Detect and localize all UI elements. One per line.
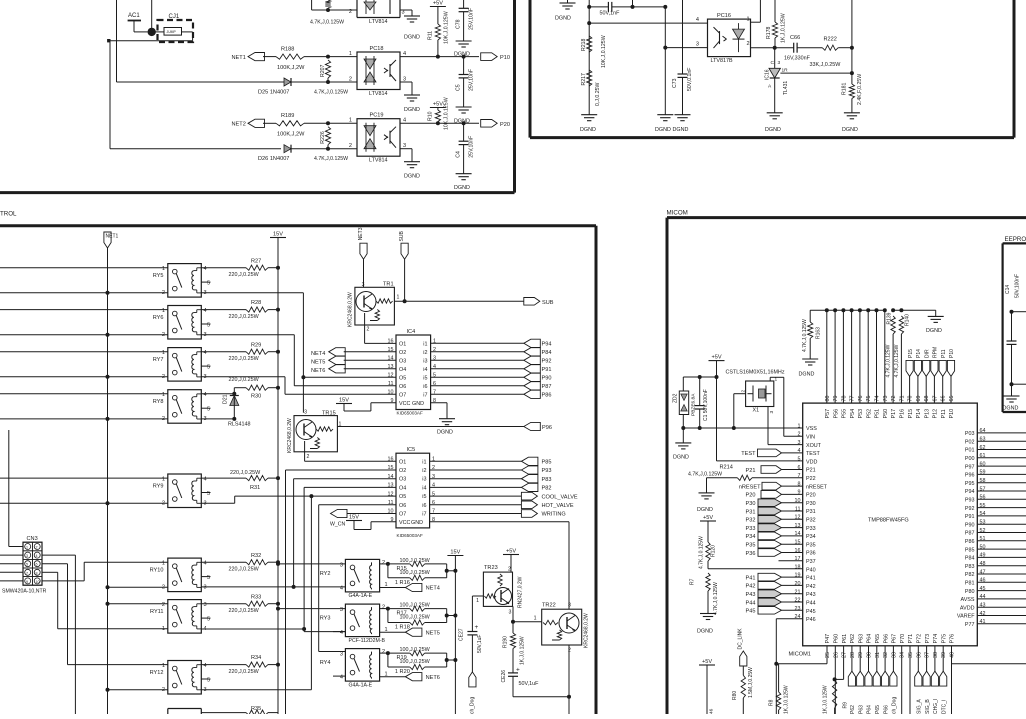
svg-text:DGND: DGND [437,429,453,435]
svg-text:28: 28 [850,652,856,658]
power +5V lower left [699,664,715,666]
svg-text:DGND: DGND [404,174,420,180]
output flag HOT_VALVE [521,501,537,509]
svg-text:P35: P35 [806,542,816,548]
svg-text:O6: O6 [399,384,406,390]
svg-text:R140: R140 [905,314,911,326]
svg-text:68: 68 [924,396,930,402]
wire VDD to pin5 [717,460,803,462]
svg-text:+5V: +5V [506,549,516,555]
wire RY4 pin4 stub [333,675,345,677]
resistor R190 1K [512,622,514,633]
svg-text:1: 1 [162,266,165,272]
svg-text:P46: P46 [806,617,816,623]
svg-text:DGND: DGND [765,127,781,133]
svg-text:P41: P41 [806,576,816,582]
border: top-right block outline [529,0,532,138]
svg-text:P85: P85 [965,547,975,553]
svg-text:P91: P91 [542,367,552,373]
ground DGND under PC19 [404,161,420,163]
wire P46-P47 node [776,663,827,665]
svg-text:P91: P91 [965,514,975,520]
power 15V rail right [447,555,463,557]
IC5 output flags P85 P93 P83 P82 [521,457,538,465]
svg-text:NET2: NET2 [232,122,246,128]
svg-text:1: 1 [747,17,750,23]
svg-text:KRC2468,0.2W: KRC2468,0.2W [287,418,293,453]
svg-text:G4A-1A-E: G4A-1A-E [349,593,373,599]
wire PC18 pin4 output [400,56,479,58]
svg-text:TR22: TR22 [542,603,556,609]
wire TR1 pin1 to SUB [394,300,523,302]
svg-text:12: 12 [388,373,394,379]
svg-text:RY7: RY7 [153,357,164,363]
svg-text:P33: P33 [806,526,816,532]
svg-text:+5V: +5V [711,355,721,361]
svg-text:DIR: DIR [924,349,930,358]
zener diode ZD2 [682,377,684,391]
wire VSS net to pin1 [683,427,802,429]
resistor R29 220 [201,351,246,353]
wire PC18 pin3 to ground [400,81,412,83]
svg-text:R31: R31 [250,485,260,491]
svg-text:R214: R214 [720,465,733,471]
svg-text:34: 34 [900,652,906,658]
svg-text:RY5: RY5 [153,273,164,279]
svg-text:3: 3 [769,411,775,414]
svg-text:R30: R30 [251,394,261,400]
svg-text:R7: R7 [690,578,696,585]
svg-text:i6: i6 [422,503,426,509]
wire node A vertical [588,0,590,115]
svg-text:1: 1 [162,392,165,398]
svg-text:C66: C66 [790,35,800,41]
svg-text:79: 79 [833,396,839,402]
svg-text:RY8: RY8 [153,399,164,405]
resistor R19 100 [380,652,388,654]
svg-text:2: 2 [740,390,746,393]
svg-text:P42: P42 [746,584,756,590]
svg-text:3: 3 [204,585,207,591]
svg-text:74: 74 [875,396,881,402]
svg-text:ch_Dog: ch_Dog [892,697,898,714]
svg-text:C1 50V,100nF: C1 50V,100nF [703,389,709,421]
svg-text:P96: P96 [965,473,975,479]
relay RY4 G4A-1A-E [345,649,379,682]
svg-text:P63: P63 [858,705,864,714]
svg-text:GND: GND [412,401,424,407]
svg-text:AVDD: AVDD [960,605,975,611]
svg-text:15V: 15V [349,515,359,521]
svg-text:AVSS: AVSS [961,597,975,603]
svg-text:nRESET: nRESET [806,484,828,490]
wire RY11 pin2 to bus [108,603,168,605]
svg-text:31: 31 [875,652,881,658]
svg-text:4.7K,J,0.125W: 4.7K,J,0.125W [310,19,344,25]
svg-text:PCF-112D2M-B: PCF-112D2M-B [349,638,386,644]
svg-text:O4: O4 [399,367,406,373]
svg-text:P12: P12 [933,409,939,419]
wire NET1 branch vertical [116,0,118,82]
svg-text:P86: P86 [965,539,975,545]
svg-text:LTV817B: LTV817B [711,58,733,64]
svg-text:+5V: +5V [433,102,443,108]
svg-text:0,J,0.25W: 0,J,0.25W [595,83,601,106]
svg-text:R218: R218 [581,38,587,51]
svg-text:R9: R9 [843,702,849,709]
power 15V for IC4 [336,403,352,405]
resistor R33 220 [201,603,246,605]
svg-text:1K,J,0.125W: 1K,J,0.125W [823,685,829,714]
svg-text:i4: i4 [422,485,426,491]
svg-text:4.7K,J,0.125W: 4.7K,J,0.125W [713,582,719,615]
svg-text:VDD: VDD [806,459,817,465]
svg-text:i1: i1 [423,341,427,347]
svg-text:36: 36 [916,652,922,658]
svg-text:5: 5 [26,563,28,567]
wire R222 node vertical [851,0,853,48]
svg-text:1: 1 [162,561,165,567]
svg-text:P44: P44 [746,600,756,606]
svg-text:O7: O7 [399,392,406,398]
resistor R15 100 [380,563,388,565]
svg-text:+5V: +5V [703,515,713,521]
svg-text:4.7K,J,0.125W: 4.7K,J,0.125W [314,90,348,96]
svg-text:R207: R207 [320,64,326,77]
svg-text:IC16: IC16 [765,69,771,80]
svg-text:NET1: NET1 [232,55,246,61]
svg-text:P90: P90 [965,522,975,528]
wire TR15 pin2 to IC5 O1 [304,452,306,462]
power +5V for R120 [700,520,716,522]
wire RY3 pin4 stub [333,631,345,633]
svg-text:20: 20 [795,581,801,587]
svg-text:38: 38 [933,652,939,658]
svg-text:nRESET: nRESET [739,484,761,490]
pin5 stub RY12 [201,678,210,680]
svg-text:5: 5 [207,281,210,287]
svg-text:5: 5 [207,491,210,497]
svg-text:P53: P53 [858,409,864,419]
optocoupler PC17 (partial top row) [356,0,358,18]
svg-text:P11: P11 [941,409,947,418]
svg-text:13: 13 [388,483,394,489]
resistor R206 (partial) [311,0,313,10]
wire RY7 pin3 to IC4 O7 [201,376,285,378]
svg-text:P14: P14 [916,409,922,419]
pin5 stub RY11 [201,617,210,619]
svg-text:DGND: DGND [655,127,671,133]
svg-text:O4: O4 [399,485,406,491]
svg-text:P66: P66 [883,634,889,644]
svg-text:RY11: RY11 [150,609,163,615]
partial relay RY13 at bottom [167,709,169,715]
svg-text:3: 3 [26,554,28,558]
capacitor C5 [463,57,465,75]
svg-text:LTV814: LTV814 [369,158,387,164]
svg-text:P87: P87 [965,531,975,537]
relay RY9 [168,474,202,508]
svg-text:P34: P34 [806,534,816,540]
svg-text:15V: 15V [273,232,283,238]
ground DGND under R163 [802,358,818,360]
wire CN3 pin8 to RY11 pin1 [42,571,58,573]
svg-text:1: 1 [397,295,400,301]
svg-text:77: 77 [850,396,856,402]
svg-text:P94: P94 [965,489,975,495]
wires CN3 left column to edge [0,554,23,556]
wire RY7 pin1 from left edge [0,351,168,353]
resistor R120 4.7K [707,521,709,542]
svg-text:40: 40 [950,652,956,658]
svg-text:CSTLS16M0X51,16MHz: CSTLS16M0X51,16MHz [726,370,785,376]
svg-text:10: 10 [36,580,40,584]
svg-text:P43: P43 [806,592,816,598]
svg-text:2: 2 [36,546,38,550]
svg-text:P85: P85 [542,460,552,466]
svg-text:10K,J,0.125W: 10K,J,0.125W [444,97,450,130]
capacitor C1 50V,100nF [699,377,701,406]
svg-text:16: 16 [388,457,394,463]
svg-text:PBZE6.8A: PBZE6.8A [691,393,697,416]
svg-text:3: 3 [509,610,512,616]
svg-text:P97: P97 [965,464,975,470]
svg-text:D21: D21 [223,394,229,404]
svg-text:ch_Dog: ch_Dog [470,697,476,714]
svg-text:9: 9 [26,580,28,584]
svg-text:RY12: RY12 [150,670,164,676]
wire PC16 pin2 net [751,47,794,49]
svg-text:P80: P80 [965,589,975,595]
svg-text:39: 39 [941,652,947,658]
resistor R34 220 [201,664,246,666]
svg-text:NET3: NET3 [358,227,364,240]
svg-text:P95: P95 [965,481,975,487]
ground DGND under C4 [456,173,472,175]
svg-text:73: 73 [883,396,889,402]
power +5V micom [709,360,725,362]
svg-text:P51: P51 [875,409,881,419]
svg-text:7: 7 [26,571,28,575]
wire RY5 pin2 to bus and left edge [0,292,168,294]
svg-text:46: 46 [709,708,715,714]
output flag SUB [524,298,540,306]
pin5 stub RY6 [201,323,210,325]
relay RY6 [168,306,202,340]
wire X1 pin1 to VIN [769,377,771,381]
svg-text:P96: P96 [542,425,552,431]
svg-text:4: 4 [340,630,343,636]
wire IC5 pin8 GND to TR22 [430,521,569,523]
svg-text:14: 14 [388,474,394,480]
svg-text:P72: P72 [917,634,923,644]
svg-text:1: 1 [162,350,165,356]
svg-text:D26 1N4007: D26 1N4007 [258,156,289,162]
svg-text:2.4K,F,0.25W: 2.4K,F,0.25W [857,74,863,105]
svg-text:4: 4 [340,675,343,681]
svg-text:R29: R29 [251,342,261,348]
svg-text:R32: R32 [251,553,261,559]
svg-text:4: 4 [204,392,207,398]
svg-text:P70: P70 [900,634,906,644]
svg-text:P86: P86 [542,393,552,399]
svg-text:2: 2 [349,77,352,83]
pin5 stub RY8 [201,407,210,409]
svg-text:2: 2 [367,327,370,333]
wire P46 pin24 down [776,618,802,620]
wire RY5 pin3 to IC4 O5 riser [201,292,303,294]
svg-text:R222: R222 [824,37,837,43]
pull-up bus for ports P57-P50 [810,309,885,311]
wire TR1 pin2 to IC4 O1 [365,342,396,344]
svg-text:50V,1nF: 50V,1nF [600,11,621,17]
svg-text:2: 2 [382,560,385,566]
ground DGND top-left of SMPS block [567,0,569,3]
svg-text:3: 3 [204,602,207,608]
resistor R139 [891,316,895,334]
svg-text:IC5: IC5 [407,447,416,453]
svg-text:R80: R80 [732,691,738,700]
svg-text:i4: i4 [423,367,427,373]
svg-text:1: 1 [534,616,537,622]
svg-text:25V,10nF: 25V,10nF [469,8,475,30]
svg-text:DGND: DGND [580,127,596,133]
svg-text:DGND: DGND [555,16,571,22]
svg-text:KRC2468,0.2W: KRC2468,0.2W [584,613,590,648]
svg-text:RY3: RY3 [320,616,331,622]
ground DGND under R217 [581,114,597,116]
svg-text:P87: P87 [542,384,552,390]
svg-text:15: 15 [388,465,394,471]
svg-text:P43: P43 [746,592,756,598]
svg-text:P16: P16 [900,409,906,419]
svg-text:1 R18: 1 R18 [395,625,410,631]
svg-text:O2: O2 [399,468,406,474]
svg-text:P10: P10 [949,349,955,358]
svg-text:2: 2 [307,454,310,460]
svg-text:P20: P20 [746,493,756,499]
diode D25 1N4007 [281,81,295,83]
svg-text:R8: R8 [769,699,775,706]
svg-text:4: 4 [403,118,406,124]
resistor R8 [778,664,780,692]
svg-text:P94: P94 [542,342,552,348]
svg-text:GND: GND [411,520,423,526]
pin5 stub RY7 [201,365,210,367]
svg-text:3: 3 [340,607,343,613]
wire P37 stub [779,560,803,562]
svg-text:75: 75 [866,396,872,402]
svg-text:1: 1 [349,51,352,57]
wire RY4 pin3 to IC5 O6 [319,504,396,506]
svg-text:P73: P73 [925,634,931,644]
svg-text:R181: R181 [842,82,848,95]
wire RY3 pin3 to 15V rail dot [278,608,345,610]
svg-text:1K,J,0.125W: 1K,J,0.125W [781,13,787,43]
relay RY12 [168,661,202,695]
wire RY9 pin1 from left edge [0,477,168,479]
svg-text:P82: P82 [965,572,975,578]
svg-text:76: 76 [858,396,864,402]
ground DGND under IC4 [439,418,455,420]
svg-text:5: 5 [798,457,801,463]
svg-text:NET6: NET6 [311,368,325,374]
svg-text:16V,330nF: 16V,330nF [784,56,811,62]
svg-text:2: 2 [382,649,385,655]
svg-text:R226: R226 [320,131,326,144]
svg-text:KID65003AF: KID65003AF [397,411,423,416]
svg-text:4.7K,J,0.125W: 4.7K,J,0.125W [314,156,348,162]
svg-text:DTC_I: DTC_I [941,700,947,714]
capacitor C73 [682,0,684,74]
wire RY11 pin4 and RY3 pin4 to IC5 O4 [201,628,304,630]
svg-text:P93: P93 [542,468,552,474]
svg-text:5: 5 [207,678,210,684]
svg-text:O5: O5 [399,494,406,500]
wire RY9 pin2 to bus and left edge [0,502,168,504]
svg-text:R11: R11 [428,31,434,40]
svg-text:1K,J,0.125W: 1K,J,0.125W [784,685,790,714]
svg-text:P10: P10 [500,55,510,61]
svg-text:DGND: DGND [673,455,689,461]
svg-text:24: 24 [795,614,801,620]
svg-text:P56: P56 [833,409,839,419]
svg-text:50V,0.1nF: 50V,0.1nF [687,68,693,91]
svg-text:i2: i2 [423,350,427,356]
svg-text:P90: P90 [542,376,552,382]
svg-text:COOL_VALVE: COOL_VALVE [542,494,578,500]
wire PC19 pin4 output [400,122,479,124]
ground DGND under C78 [456,40,472,42]
svg-text:P54: P54 [850,409,856,419]
resistor R178 [774,0,776,22]
svg-text:P65: P65 [875,705,881,714]
svg-text:4: 4 [340,585,343,591]
svg-text:LTV814: LTV814 [369,19,387,25]
svg-text:P92: P92 [965,506,975,512]
svg-text:RY9: RY9 [153,484,164,490]
svg-text:3: 3 [696,42,699,48]
svg-text:P45: P45 [746,609,756,615]
svg-text:21: 21 [795,589,801,595]
ground DGND under pin3 net [657,114,673,116]
svg-text:67: 67 [932,396,938,402]
svg-text:NET1: NET1 [106,234,119,240]
wire RY8 pin1 from left edge [0,393,168,395]
capacitor C 50V,1nF [589,6,608,8]
svg-text:G4A-1A-E: G4A-1A-E [349,682,373,688]
capacitor C14 50V,100nF [1012,311,1026,313]
svg-text:W_CN: W_CN [330,522,346,528]
svg-text:P00: P00 [965,456,975,462]
svg-text:P52: P52 [866,409,872,419]
svg-text:C14: C14 [1005,285,1011,294]
diode D26 1N4007 [284,145,291,153]
svg-text:32: 32 [883,652,889,658]
svg-text:220,J,0.25W: 220,J,0.25W [229,608,260,614]
svg-text:TR23: TR23 [484,565,498,571]
jumper element JUMP inside CJ1 [164,28,182,36]
svg-text:1: 1 [162,477,165,483]
resistor R11 [437,7,439,25]
wire C14 to ground [1011,384,1013,396]
IC4 output flags P94 P84 P92 P91 P90 P87 P86 [524,339,541,347]
svg-text:R188: R188 [281,47,294,53]
svg-text:P71: P71 [908,634,914,644]
svg-text:X1: X1 [753,408,760,414]
svg-text:P42: P42 [806,584,816,590]
svg-text:220,J,0.25W: 220,J,0.25W [229,567,260,573]
